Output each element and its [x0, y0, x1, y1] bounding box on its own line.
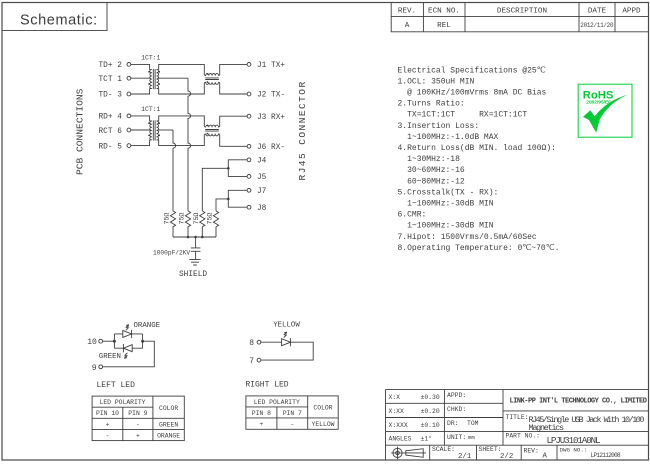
svg-text:PIN 9: PIN 9: [128, 410, 147, 417]
svg-text:RJ45 CONNECTOR: RJ45 CONNECTOR: [297, 80, 308, 180]
projection symbol frustum: [403, 449, 426, 458]
svg-text:-: -: [136, 421, 140, 428]
svg-text:+: +: [136, 432, 140, 439]
capacitor C1 1000pF/2KV: [191, 237, 201, 259]
svg-text:J6 RX-: J6 RX-: [257, 144, 285, 152]
svg-text:30~60MHz:-16: 30~60MHz:-16: [398, 166, 465, 175]
orange light arrow: [126, 325, 129, 330]
pin circle RD- 5: [127, 144, 131, 148]
revision table: [391, 3, 648, 32]
svg-text:1~30MHz:-18: 1~30MHz:-18: [398, 155, 461, 164]
svg-text:PIN 10: PIN 10: [96, 410, 119, 417]
svg-text:TITLE:: TITLE:: [506, 414, 529, 421]
svg-text:75Ω: 75Ω: [179, 213, 186, 225]
svg-text:±1°: ±1°: [421, 435, 433, 443]
svg-text:TOM: TOM: [467, 420, 479, 427]
choke CM2 core: [205, 130, 219, 132]
RoHS box: [578, 84, 632, 137]
svg-text:J2 TX-: J2 TX-: [257, 92, 285, 100]
pin circle TD+ 2: [127, 63, 131, 67]
svg-text:2012/11/20: 2012/11/20: [580, 22, 614, 29]
svg-text:8.Operating Temperature: 0℃~70: 8.Operating Temperature: 0℃~70℃.: [398, 244, 560, 253]
svg-text:75Ω: 75Ω: [164, 213, 171, 225]
svg-text:X:X: X:X: [389, 394, 401, 401]
svg-text:COLOR: COLOR: [159, 405, 178, 412]
pin circle RD+ 4: [127, 114, 131, 118]
svg-text:CHKD:: CHKD:: [447, 406, 466, 413]
wire RCT to T2 primary CT: [131, 129, 151, 131]
svg-text:DWG NO.:: DWG NO.:: [560, 447, 588, 454]
svg-text:RCT 6: RCT 6: [99, 128, 123, 136]
bottom row dividers: [430, 445, 557, 460]
svg-text:PIN 7: PIN 7: [283, 410, 302, 417]
choke CM1 core: [205, 78, 219, 80]
transformer T1 secondary winding: [157, 70, 159, 89]
svg-text:GREEN: GREEN: [99, 353, 121, 361]
choke CM2 top winding: [204, 125, 220, 127]
svg-text:LED POLARITY: LED POLARITY: [99, 399, 145, 406]
junction node J7/J8: [227, 198, 230, 201]
svg-text:J3 RX+: J3 RX+: [257, 114, 285, 122]
pin circle RCT 6: [127, 128, 131, 132]
pin circle J5: [247, 175, 251, 179]
svg-text:SCALE:: SCALE:: [432, 446, 455, 453]
pin circle J8: [247, 205, 251, 209]
wire RD- to T2 primary bottom: [131, 140, 150, 146]
svg-text:A: A: [405, 22, 410, 30]
right pin labels: [257, 62, 285, 213]
svg-text:ANGLES: ANGLES: [389, 436, 412, 443]
resistor R4 75ohm: [213, 211, 218, 237]
svg-text:mm: mm: [468, 434, 475, 441]
svg-text:ECN NO.: ECN NO.: [428, 8, 460, 16]
wire TCT to T1 primary CT: [131, 77, 151, 79]
vertical wire x=188 with hops: [188, 78, 191, 211]
svg-text:TD+ 2: TD+ 2: [99, 62, 123, 70]
title block frame: [386, 390, 649, 460]
transformer T2 core: [153, 120, 155, 140]
pin circle J4: [247, 158, 251, 162]
svg-text:REV.: REV.: [398, 8, 416, 16]
svg-text:YELLOW: YELLOW: [273, 322, 300, 330]
svg-text:UNIT:: UNIT:: [447, 434, 466, 441]
resistor R2 75ohm: [185, 211, 190, 237]
svg-text:Electrical Specifications @25℃: Electrical Specifications @25℃: [398, 66, 546, 75]
LED pair frame: [114, 334, 142, 348]
svg-text:10: 10: [87, 338, 97, 347]
svg-text:LINK-PP INT'L TECHNOLOGY CO.,: LINK-PP INT'L TECHNOLOGY CO., LIMITED: [510, 398, 647, 406]
svg-text:TD- 3: TD- 3: [99, 92, 123, 100]
svg-text:75Ω: 75Ω: [193, 213, 200, 225]
svg-text:ORANGE: ORANGE: [157, 432, 180, 439]
svg-text:Magnetics: Magnetics: [529, 423, 565, 433]
LED yellow (points right): [282, 338, 291, 346]
right LED polarity table: [246, 396, 338, 429]
svg-text:LPJU3101A0NL: LPJU3101A0NL: [547, 435, 601, 446]
wire LED pair to pin 9: [103, 341, 155, 367]
pin circle 8: [257, 340, 261, 344]
LED green (points left): [123, 344, 132, 352]
svg-text:1CT:1: 1CT:1: [141, 106, 160, 113]
svg-text:J8: J8: [257, 205, 267, 213]
svg-text:8: 8: [249, 339, 254, 348]
svg-text:±0.30: ±0.30: [421, 394, 440, 401]
wire TD+ to T1 primary top: [131, 64, 150, 69]
left pin labels: [99, 62, 123, 151]
wire T1 secondary bottom to choke CM1: [159, 83, 205, 94]
svg-text:GREEN: GREEN: [159, 421, 178, 428]
svg-text:-: -: [290, 421, 294, 428]
svg-text:1~100MHz:-30dB MIN: 1~100MHz:-30dB MIN: [398, 222, 494, 231]
svg-text:Schematic:: Schematic:: [20, 13, 98, 29]
junction dots LED pair: [113, 340, 144, 343]
svg-text:TCT 1: TCT 1: [99, 76, 123, 84]
choke CM2 phase dots: [207, 125, 209, 135]
svg-text:PART NO.:: PART NO.:: [506, 433, 541, 440]
svg-text:REV:: REV:: [524, 448, 539, 455]
svg-text:±0.20: ±0.20: [421, 408, 440, 415]
transformer T2 secondary winding: [157, 121, 159, 140]
wire pin8 to LED yellow: [261, 341, 282, 343]
svg-text:ORANGE: ORANGE: [134, 322, 161, 330]
svg-text:±0.10: ±0.10: [421, 422, 440, 429]
revision table headers: [398, 8, 641, 31]
svg-text:RD- 5: RD- 5: [99, 143, 123, 151]
svg-text:+: +: [106, 421, 110, 428]
transformer T1 core: [153, 69, 155, 89]
svg-text:1~100MHz:-30dB MIN: 1~100MHz:-30dB MIN: [398, 200, 494, 209]
pin circle J6: [247, 144, 251, 148]
svg-text:PCB CONNECTIONS: PCB CONNECTIONS: [75, 88, 86, 175]
wire J7/J8 bracket: [228, 190, 247, 207]
junction node J4/J5: [227, 167, 230, 170]
svg-text:7: 7: [249, 357, 254, 366]
svg-text:J7: J7: [257, 188, 267, 196]
left LED polarity table: [92, 396, 184, 441]
pin circle 10: [99, 339, 103, 343]
svg-text:APPD:: APPD:: [447, 392, 466, 399]
junction dots on bus: [187, 236, 204, 239]
wire CM2 top to J3: [220, 116, 247, 126]
left tolerance rows: [386, 403, 504, 431]
svg-text:SHEET:: SHEET:: [479, 446, 502, 453]
wire TD- to T1 primary bottom: [131, 89, 150, 95]
transformer T1 primary winding: [150, 70, 152, 89]
transformer T1 phase dots: [148, 71, 160, 85]
pin circle J7: [247, 188, 251, 192]
svg-text:-: -: [106, 432, 110, 439]
resistor R1 75ohm: [170, 211, 175, 237]
wire T2 secondary bottom to choke CM2: [159, 135, 205, 146]
svg-text:4.Return Loss(dB MIN. load 100: 4.Return Loss(dB MIN. load 100Ω):: [398, 144, 556, 153]
projection symbol circle: [393, 448, 402, 457]
wire CM1 bottom to J2: [220, 83, 247, 94]
svg-text:RIGHT LED: RIGHT LED: [245, 380, 288, 389]
svg-text:2.Turns Ratio:: 2.Turns Ratio:: [398, 100, 465, 109]
svg-text:A: A: [543, 453, 548, 461]
svg-text:LED POLARITY: LED POLARITY: [254, 399, 300, 406]
choke CM1 phase dots: [207, 73, 209, 83]
svg-text:J5: J5: [257, 174, 267, 182]
pin circle J2: [247, 92, 251, 96]
svg-text:X:XXX: X:XXX: [389, 422, 408, 429]
wire R3 to J4/J5 node: [202, 168, 228, 211]
svg-text:@ 100KHz/100mVrms 8mA DC Bias: @ 100KHz/100mVrms 8mA DC Bias: [398, 89, 547, 98]
green light arrow: [125, 353, 128, 358]
svg-text:1~100MHz:-1.0dB MAX: 1~100MHz:-1.0dB MAX: [398, 133, 499, 142]
ground bus wire: [173, 236, 216, 238]
svg-text:+: +: [259, 421, 263, 428]
svg-text:X:XX: X:XX: [389, 408, 405, 415]
svg-text:COLOR: COLOR: [313, 405, 332, 412]
pin circle 7: [257, 358, 261, 362]
svg-text:3.Insertion Loss:: 3.Insertion Loss:: [398, 122, 480, 131]
ground (shield): [189, 259, 200, 265]
svg-text:60~80MHz:-12: 60~80MHz:-12: [398, 177, 465, 186]
svg-text:LP12112008: LP12112008: [591, 452, 622, 459]
svg-text:TX=1CT:1CT RX=1CT:1CT: TX=1CT:1CT RX=1CT:1CT: [398, 111, 528, 120]
wire T1 secondary top to choke CM1: [159, 64, 205, 74]
svg-text:RD+ 4: RD+ 4: [99, 114, 123, 122]
wire RD+ to T2 primary top: [131, 116, 150, 121]
transformer T2 phase dots: [148, 122, 160, 136]
svg-text:REL: REL: [437, 22, 451, 30]
svg-text:1000pF/2KV: 1000pF/2KV: [153, 249, 190, 256]
svg-text:DATE: DATE: [588, 8, 607, 16]
svg-text:YELLOW: YELLOW: [311, 421, 334, 428]
wire top branch: [114, 333, 142, 335]
transformer T2 primary winding: [150, 121, 152, 140]
vertical wire x=173 with hop: [173, 130, 176, 211]
svg-text:2/1: 2/1: [458, 453, 472, 461]
title box "Schematic:": [2, 3, 107, 31]
svg-text:75Ω: 75Ω: [207, 213, 214, 225]
choke CM1 bottom winding: [204, 82, 220, 84]
svg-text:J4: J4: [257, 157, 267, 165]
svg-text:6.CMR:: 6.CMR:: [398, 211, 427, 220]
wire T1 secondary CT to node: [157, 77, 188, 79]
svg-text:J1 TX+: J1 TX+: [257, 62, 285, 70]
choke CM1 top winding: [204, 74, 220, 76]
wire T2 secondary CT to node: [157, 129, 173, 131]
wire T2 secondary top to choke CM2: [159, 116, 205, 126]
pin circle J1: [247, 63, 251, 67]
svg-text:DR:: DR:: [447, 420, 459, 427]
svg-text:2/2: 2/2: [500, 453, 513, 461]
svg-text:DESCRIPTION: DESCRIPTION: [497, 8, 547, 16]
yellow light arrow: [284, 332, 287, 337]
wire R4 to J7/J8 node: [216, 199, 228, 211]
svg-text:7.Hipot: 1500Vrms/0.5mA/60Sec: 7.Hipot: 1500Vrms/0.5mA/60Sec: [398, 233, 537, 242]
svg-text:1.OCL: 350uH MIN: 1.OCL: 350uH MIN: [398, 77, 475, 86]
resistor R3 75ohm: [200, 211, 205, 237]
wire CM1 top to J1: [220, 64, 247, 74]
LED orange (points right): [123, 330, 132, 338]
wire bottom branch: [114, 347, 142, 349]
wire pin10 to LED pair: [103, 340, 115, 342]
pin circle TD- 3: [127, 92, 131, 96]
svg-text:9: 9: [92, 364, 97, 373]
svg-text:RoHS: RoHS: [583, 89, 614, 101]
svg-text:SHIELD: SHIELD: [179, 271, 207, 279]
svg-text:APPD: APPD: [622, 8, 641, 16]
right rows: [503, 411, 649, 432]
svg-text:1CT:1: 1CT:1: [141, 55, 160, 62]
pin circle J3: [247, 114, 251, 118]
wire CM2 bottom to J6: [220, 135, 247, 147]
svg-text:PIN 8: PIN 8: [252, 410, 271, 417]
pin circle 9: [99, 365, 103, 369]
wire J4/J5 bracket: [228, 160, 247, 177]
svg-text:LEFT LED: LEFT LED: [97, 381, 136, 390]
choke CM2 bottom winding: [204, 134, 220, 136]
pin circle TCT 1: [127, 76, 131, 80]
svg-text:5.Crosstalk(TX - RX):: 5.Crosstalk(TX - RX):: [398, 188, 499, 197]
RoHS check mark: [583, 95, 628, 133]
wire LED yellow to pin 7: [261, 342, 313, 360]
